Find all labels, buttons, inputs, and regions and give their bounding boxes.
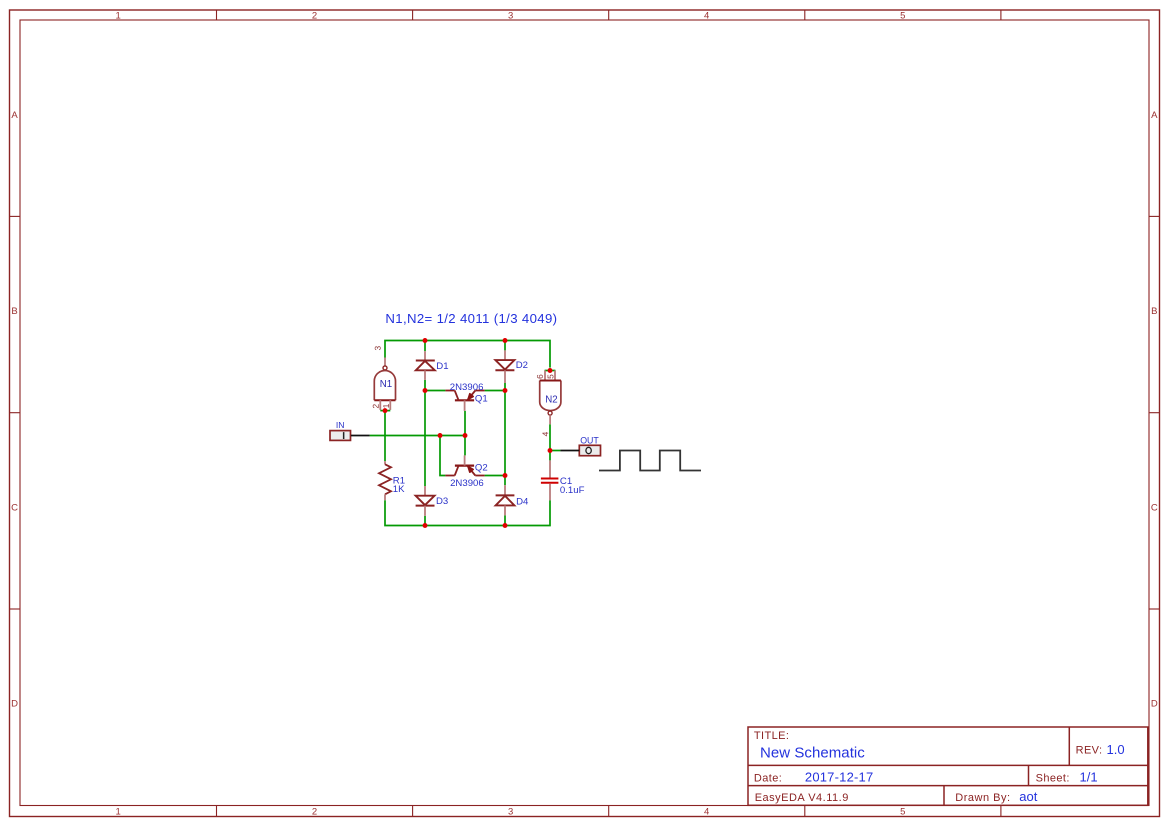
wire Q2 row right bbox=[485, 475, 505, 477]
svg-text:4: 4 bbox=[704, 806, 709, 817]
svg-text:2: 2 bbox=[312, 10, 317, 21]
junction Q1 row right bbox=[503, 388, 508, 393]
wire IN row to Q2 left elbow bbox=[440, 436, 445, 476]
transistor Q2 bbox=[445, 455, 487, 489]
svg-text:Sheet:: Sheet: bbox=[1036, 772, 1070, 784]
svg-text:Q2: Q2 bbox=[475, 463, 488, 474]
wire N1 column (gate output to R1) bbox=[384, 411, 386, 462]
pin 2 of N1 bbox=[373, 404, 379, 408]
junction N2 inputs bbox=[548, 368, 553, 373]
svg-text:A: A bbox=[1151, 110, 1158, 121]
svg-text:2017-12-17: 2017-12-17 bbox=[805, 769, 874, 784]
svg-text:5: 5 bbox=[900, 806, 905, 817]
pin 1 of N1 bbox=[383, 404, 389, 408]
svg-text:N2: N2 bbox=[545, 394, 557, 405]
diode D3 bbox=[416, 486, 449, 516]
waveform square wave bbox=[599, 451, 701, 471]
svg-text:TITLE:: TITLE: bbox=[754, 730, 789, 742]
svg-text:EasyEDA V4.11.9: EasyEDA V4.11.9 bbox=[755, 792, 849, 804]
wire N2 output to OUT bbox=[549, 424, 551, 450]
diode D4 bbox=[496, 485, 529, 515]
wire Q1 row right bbox=[485, 390, 505, 392]
wire D2-D4 column middle bbox=[504, 391, 506, 486]
gate N2 bbox=[537, 370, 561, 436]
junction IN row elbow bbox=[438, 433, 443, 438]
svg-text:D: D bbox=[11, 699, 18, 710]
diode D1 bbox=[416, 351, 449, 380]
svg-text:New Schematic: New Schematic bbox=[760, 744, 865, 761]
svg-text:OUT: OUT bbox=[580, 435, 599, 445]
svg-text:3: 3 bbox=[508, 806, 513, 817]
svg-text:Drawn By:: Drawn By: bbox=[955, 792, 1010, 804]
wire D2 to Q1 row bbox=[504, 383, 506, 391]
svg-text:B: B bbox=[1151, 306, 1157, 317]
svg-text:N1: N1 bbox=[380, 379, 392, 390]
pin 6 of N2 bbox=[537, 375, 543, 379]
junction N1 inputs bbox=[383, 408, 388, 413]
junction Q1 row left bbox=[423, 388, 428, 393]
resistor R1 bbox=[379, 461, 405, 500]
junction IN row Q base bbox=[463, 433, 468, 438]
transistor Q1 bbox=[445, 382, 487, 411]
svg-text:1: 1 bbox=[116, 806, 121, 817]
junction OUT node bbox=[548, 448, 553, 453]
wire Q1 base link bbox=[464, 411, 466, 436]
port IN bbox=[330, 420, 370, 440]
svg-text:5: 5 bbox=[900, 10, 905, 21]
svg-text:A: A bbox=[11, 110, 18, 121]
wire Q1 row left bbox=[425, 390, 445, 392]
svg-text:1.0: 1.0 bbox=[1107, 742, 1125, 757]
pin 5 of N2 bbox=[548, 375, 554, 379]
wire top rail bbox=[385, 341, 550, 368]
svg-text:1: 1 bbox=[116, 10, 121, 21]
svg-text:D2: D2 bbox=[516, 360, 528, 371]
wire D1 column upper bbox=[424, 341, 426, 352]
svg-text:1K: 1K bbox=[393, 484, 405, 495]
svg-text:REV:: REV: bbox=[1076, 745, 1103, 757]
wire bottom rail bbox=[385, 500, 550, 525]
gate N1 bbox=[373, 346, 396, 410]
junction bottom rail D3 bbox=[423, 523, 428, 528]
svg-text:0.1uF: 0.1uF bbox=[560, 485, 585, 496]
capacitor C1 bbox=[541, 460, 585, 500]
diode D2 bbox=[495, 350, 528, 383]
svg-text:C: C bbox=[1151, 502, 1158, 513]
wire OUT row bbox=[550, 450, 560, 452]
svg-text:D: D bbox=[1151, 699, 1158, 710]
svg-text:Q1: Q1 bbox=[475, 393, 488, 404]
wire OUT to C1 bbox=[549, 451, 551, 461]
junction Q2 row right bbox=[503, 473, 508, 478]
wire D1 to Q1 row bbox=[424, 380, 426, 391]
pin 3 of N1 bbox=[375, 346, 381, 350]
wire D3 lower bbox=[424, 516, 426, 526]
svg-text:N1,N2= 1/2 4011 (1/3 4049): N1,N2= 1/2 4011 (1/3 4049) bbox=[385, 311, 557, 326]
junction top rail D1 bbox=[423, 338, 428, 343]
svg-text:Date:: Date: bbox=[754, 772, 782, 784]
svg-text:aot: aot bbox=[1019, 789, 1037, 804]
svg-text:D3: D3 bbox=[436, 496, 448, 507]
junction top rail D2 bbox=[503, 338, 508, 343]
wire D2 upper bbox=[504, 341, 506, 351]
wire N2 pins tie bbox=[545, 370, 556, 372]
wire Q2 base link bbox=[464, 436, 466, 456]
wire IN row bbox=[370, 435, 465, 437]
svg-text:IN: IN bbox=[336, 420, 345, 430]
wire D4 lower bbox=[504, 515, 506, 525]
svg-text:2N3906: 2N3906 bbox=[450, 382, 484, 393]
svg-text:3: 3 bbox=[508, 10, 513, 21]
port OUT bbox=[560, 435, 600, 455]
pin 4 of N2 bbox=[542, 432, 548, 436]
svg-text:B: B bbox=[11, 306, 17, 317]
junction bottom rail D4 bbox=[503, 523, 508, 528]
svg-text:4: 4 bbox=[704, 10, 709, 21]
svg-text:1/1: 1/1 bbox=[1080, 769, 1098, 784]
svg-text:C: C bbox=[11, 502, 18, 513]
svg-text:2N3906: 2N3906 bbox=[450, 478, 484, 489]
svg-text:D1: D1 bbox=[436, 361, 448, 372]
svg-text:D4: D4 bbox=[516, 497, 529, 508]
wire D1-D3 column middle bbox=[424, 391, 426, 487]
svg-text:2: 2 bbox=[312, 806, 317, 817]
